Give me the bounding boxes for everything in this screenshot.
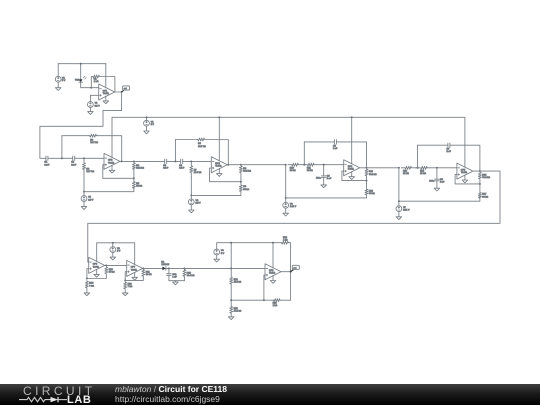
svg-text:2.21 V: 2.21 V <box>403 210 410 212</box>
wire <box>103 165 134 179</box>
node junction <box>83 191 85 193</box>
voltage source V9 <box>214 249 225 255</box>
svg-text:1 kΩ: 1 kΩ <box>283 240 288 242</box>
wire <box>240 174 242 185</box>
wire <box>302 164 306 166</box>
node junction <box>290 271 292 273</box>
wire <box>105 264 127 266</box>
wire <box>316 164 344 166</box>
node junction <box>230 267 232 269</box>
svg-text:TL081: TL081 <box>131 269 138 271</box>
wire <box>303 142 305 165</box>
node junction <box>285 164 287 166</box>
svg-text:98 kΩ: 98 kΩ <box>482 196 488 198</box>
wire <box>227 164 285 166</box>
wire <box>83 174 85 192</box>
node junction <box>83 157 85 159</box>
wire <box>280 272 291 301</box>
svg-text:36.5 kΩ: 36.5 kΩ <box>243 171 251 173</box>
svg-text:TL081: TL081 <box>215 166 222 168</box>
photodiode PD1 <box>75 76 86 82</box>
ground <box>462 180 468 183</box>
ground <box>228 317 234 320</box>
node junction <box>146 116 148 118</box>
svg-text:2.5 V: 2.5 V <box>95 105 101 107</box>
node junction <box>121 160 123 162</box>
node junction <box>190 160 192 162</box>
wire <box>479 180 481 192</box>
wire <box>351 172 353 177</box>
wire <box>289 243 291 272</box>
wire <box>398 212 400 217</box>
svg-text:5 V: 5 V <box>117 250 121 252</box>
node junction <box>168 267 170 269</box>
label 100n <box>429 181 435 183</box>
svg-text:5 V: 5 V <box>221 253 225 255</box>
wire <box>218 169 220 174</box>
svg-text:TL081: TL081 <box>103 93 110 95</box>
resistor R20 <box>124 282 133 289</box>
resistor R2 <box>89 134 98 144</box>
wire <box>87 269 89 279</box>
resistor R13 <box>365 189 375 195</box>
svg-text:16.7 kΩ: 16.7 kΩ <box>198 146 206 148</box>
wire <box>112 253 114 258</box>
wire <box>174 140 176 162</box>
voltage source V3 <box>81 196 94 202</box>
svg-text:20 kΩ: 20 kΩ <box>403 173 409 175</box>
capacitor C1 <box>44 156 50 166</box>
node junction <box>190 194 192 196</box>
node junction <box>351 116 353 118</box>
node junction <box>272 242 274 244</box>
node junction <box>240 181 242 183</box>
wire <box>272 243 274 268</box>
voltage source V7 <box>396 206 410 212</box>
node junction <box>133 177 135 179</box>
node junction <box>90 87 92 89</box>
resistor R10 <box>288 163 302 172</box>
resistor R4 <box>132 161 144 171</box>
wire <box>105 96 107 101</box>
ground <box>349 177 355 180</box>
wire <box>133 171 135 182</box>
node junction <box>366 180 368 182</box>
op-amp OP5 <box>457 163 473 179</box>
wire <box>285 165 287 198</box>
wire <box>115 91 122 93</box>
svg-text:2 uF: 2 uF <box>333 148 338 150</box>
ground <box>103 101 109 104</box>
resistor R9 <box>239 185 249 192</box>
voltage source V5 <box>188 199 201 205</box>
op-amp OP6 <box>89 257 105 273</box>
resistor R26 <box>273 299 280 308</box>
wire <box>57 82 59 88</box>
svg-text:2 uF: 2 uF <box>447 151 452 153</box>
wire <box>83 192 85 196</box>
wire <box>366 177 368 189</box>
resistor R23 <box>282 237 289 244</box>
svg-text:0.2 F: 0.2 F <box>44 164 50 166</box>
node junction <box>133 160 135 162</box>
node junction <box>285 197 287 199</box>
node junction <box>398 200 400 202</box>
wire <box>190 195 192 199</box>
svg-text:1 kΩ: 1 kΩ <box>94 81 99 83</box>
wire <box>417 145 419 168</box>
wire <box>111 165 113 170</box>
wire <box>218 117 220 160</box>
node junction <box>80 63 82 65</box>
wire <box>398 168 400 201</box>
ground <box>217 174 223 177</box>
wire <box>415 167 419 169</box>
svg-text:0.2 F: 0.2 F <box>163 167 169 169</box>
capacitor C6 <box>321 176 331 181</box>
wire <box>167 160 181 162</box>
node junction <box>436 167 438 169</box>
wire <box>62 135 89 137</box>
resistor R6 <box>197 138 206 148</box>
wire <box>183 160 212 162</box>
wire <box>125 277 143 280</box>
ground <box>81 207 87 210</box>
wire <box>436 181 438 188</box>
svg-text:100n: 100n <box>429 181 435 183</box>
wire <box>80 64 82 80</box>
wire <box>231 267 265 269</box>
node junction <box>366 167 368 169</box>
resistor R17 <box>478 193 488 199</box>
node junction <box>218 116 220 118</box>
svg-text:1N4148: 1N4148 <box>161 264 169 266</box>
ground <box>109 170 115 173</box>
wire <box>169 275 185 280</box>
diode D1 <box>161 261 169 270</box>
node junction <box>112 242 114 244</box>
svg-text:5 V: 5 V <box>62 80 66 82</box>
svg-text:20 kΩ: 20 kΩ <box>420 173 426 175</box>
voltage source V2 <box>88 102 101 108</box>
svg-text:out: out <box>293 266 296 269</box>
voltage source V1 <box>55 76 66 82</box>
output flag OUT1 <box>122 86 130 92</box>
node junction <box>227 164 229 166</box>
node junction <box>105 264 107 266</box>
ground <box>321 185 327 188</box>
wire <box>84 188 134 191</box>
node junction <box>479 183 481 185</box>
wire <box>183 278 185 281</box>
wire <box>86 289 88 293</box>
wire <box>464 175 466 180</box>
wire <box>285 198 287 203</box>
wire <box>88 171 500 262</box>
svg-text:TL081: TL081 <box>461 172 468 174</box>
ground <box>396 217 402 220</box>
node junction <box>183 267 185 269</box>
svg-text:TL081: TL081 <box>108 162 115 164</box>
resistor R1 <box>91 75 101 83</box>
svg-text:TL081: TL081 <box>269 273 276 275</box>
capacitor C3 <box>163 159 169 169</box>
wire <box>146 117 148 120</box>
wire <box>96 269 98 274</box>
wire <box>101 77 115 93</box>
wire <box>90 77 92 88</box>
wire <box>304 141 334 143</box>
ground <box>55 88 61 91</box>
wire <box>399 198 480 201</box>
ground <box>144 131 150 134</box>
resistor R12 <box>365 168 377 177</box>
wire <box>90 95 98 101</box>
wire <box>429 167 457 169</box>
node junction <box>174 160 176 162</box>
resistor R11 <box>306 163 317 172</box>
svg-text:47.5 kΩ: 47.5 kΩ <box>234 281 242 283</box>
ground <box>173 282 179 285</box>
svg-text:30 kΩ: 30 kΩ <box>146 274 152 276</box>
wire <box>87 275 106 278</box>
node junction <box>398 167 400 169</box>
wire <box>210 168 241 182</box>
wire <box>191 192 241 196</box>
svg-text:2.5 V: 2.5 V <box>88 199 94 201</box>
wire <box>190 177 192 195</box>
ground <box>132 277 138 280</box>
resistor R24 <box>230 277 242 284</box>
wire <box>450 145 480 171</box>
svg-text:2 uF: 2 uF <box>440 182 445 184</box>
capacitor C7 <box>447 143 452 153</box>
wire <box>61 136 63 159</box>
wire <box>342 171 367 181</box>
ground <box>110 257 116 260</box>
node junction <box>230 299 232 301</box>
wire <box>436 168 438 179</box>
wire <box>146 126 148 131</box>
ground <box>270 281 276 284</box>
svg-text:16.7 kΩ: 16.7 kΩ <box>90 142 98 144</box>
resistor R21 <box>142 268 152 277</box>
ground <box>94 274 100 277</box>
node junction <box>240 164 242 166</box>
wire <box>418 144 448 146</box>
wire <box>272 276 274 281</box>
svg-text:out: out <box>124 87 127 90</box>
ground <box>84 293 90 296</box>
wire <box>190 205 192 210</box>
svg-text:30 kΩ: 30 kΩ <box>109 271 115 273</box>
svg-text:7 kΩ: 7 kΩ <box>128 286 133 288</box>
svg-text:TL081: TL081 <box>93 266 100 268</box>
node junction <box>303 164 305 166</box>
op-amp OP7 <box>127 260 143 276</box>
voltage source V6 <box>283 202 297 208</box>
svg-text:1 kΩ: 1 kΩ <box>273 305 278 307</box>
wire <box>216 255 218 259</box>
node junction <box>417 167 419 169</box>
wire <box>323 165 325 176</box>
resistor R5 <box>132 182 142 189</box>
svg-text:10.4 kΩ: 10.4 kΩ <box>187 275 195 277</box>
voltage source V4 <box>144 120 155 126</box>
resistor R15 <box>419 166 430 175</box>
svg-text:98 kΩ: 98 kΩ <box>136 186 142 188</box>
svg-text:2.5 V: 2.5 V <box>196 203 202 205</box>
wire <box>360 167 399 169</box>
wire <box>75 157 104 159</box>
svg-text:5 V: 5 V <box>151 124 155 126</box>
op-amp OP2 <box>104 153 120 169</box>
wire <box>168 268 170 273</box>
node junction <box>121 91 123 93</box>
ground <box>434 188 440 191</box>
wire <box>323 178 325 185</box>
svg-text:1 uF: 1 uF <box>172 277 177 279</box>
capacitor C5 <box>333 140 338 150</box>
wire <box>97 136 122 162</box>
node junction <box>61 157 63 159</box>
node junction <box>230 242 232 244</box>
svg-text:7 kΩ: 7 kΩ <box>89 285 94 287</box>
svg-text:47.5 kΩ: 47.5 kΩ <box>234 311 242 313</box>
resistor R8 <box>239 165 251 174</box>
resistor R19 <box>105 265 115 275</box>
ground <box>283 213 289 216</box>
capacitor C10 <box>167 274 178 279</box>
svg-text:20 kΩ: 20 kΩ <box>307 170 313 172</box>
wire <box>264 275 265 300</box>
wire <box>83 201 85 206</box>
capacitor C2 <box>71 156 77 166</box>
wire <box>398 201 400 206</box>
svg-text:16.7 kΩ: 16.7 kΩ <box>194 172 202 174</box>
op-amp OP3 <box>211 157 227 173</box>
rail wire <box>112 117 465 167</box>
wire <box>81 82 92 88</box>
ground <box>214 259 220 262</box>
wire <box>285 208 287 213</box>
wire <box>455 174 480 184</box>
op-amp OP1 <box>99 84 115 100</box>
resistor R14 <box>401 166 415 175</box>
node junction <box>479 170 481 172</box>
wire <box>205 140 228 165</box>
svg-text:70.3 kΩ: 70.3 kΩ <box>482 177 490 179</box>
rail wire <box>217 243 282 249</box>
wire <box>105 64 107 88</box>
label 100n <box>316 177 322 179</box>
ground <box>122 293 128 296</box>
voltage source V8 <box>110 247 121 253</box>
wire <box>89 107 91 111</box>
rail wire <box>97 243 135 265</box>
svg-text:98 kΩ: 98 kΩ <box>369 193 375 195</box>
svg-text:0.2 F: 0.2 F <box>71 164 77 166</box>
svg-text:36.5 kΩ: 36.5 kΩ <box>136 168 144 170</box>
capacitor C8 <box>435 179 445 184</box>
wire <box>120 160 165 162</box>
wire <box>40 92 122 158</box>
wire <box>281 271 291 273</box>
node junction <box>323 164 325 166</box>
wire <box>58 63 106 65</box>
wire <box>174 281 176 282</box>
node junction <box>124 279 126 281</box>
resistor R3 <box>83 158 95 174</box>
svg-text:20 kΩ: 20 kΩ <box>290 170 296 172</box>
svg-text:98 kΩ: 98 kΩ <box>243 189 249 191</box>
svg-text:2 uF: 2 uF <box>327 178 332 180</box>
svg-text:2.21 V: 2.21 V <box>290 206 297 208</box>
wire <box>112 243 114 247</box>
svg-text:0.2 F: 0.2 F <box>179 167 185 169</box>
svg-text:100n: 100n <box>316 177 322 179</box>
ground <box>88 112 94 115</box>
node junction <box>263 299 265 301</box>
wire <box>124 289 126 293</box>
op-amp OP4 <box>344 160 360 176</box>
wire <box>134 272 136 277</box>
wire <box>48 157 73 159</box>
wire <box>175 139 197 141</box>
capacitor C4 <box>179 159 185 169</box>
resistor R7 <box>190 161 202 177</box>
wire <box>40 157 46 159</box>
wire <box>230 313 232 317</box>
svg-text:16.7 kΩ: 16.7 kΩ <box>86 171 94 173</box>
wire <box>91 87 98 89</box>
node junction <box>86 278 88 280</box>
svg-text:70.3 kΩ: 70.3 kΩ <box>369 174 377 176</box>
op-amp OP8 <box>265 264 281 280</box>
wire <box>125 272 127 281</box>
svg-text:TL081: TL081 <box>348 169 355 171</box>
wire <box>57 64 59 77</box>
wire <box>351 117 353 164</box>
wire <box>166 267 231 269</box>
wire <box>336 142 366 168</box>
ground <box>189 210 195 213</box>
resistor R22 <box>183 268 195 277</box>
wire <box>286 195 367 198</box>
resistor R16 <box>478 171 490 180</box>
output flag OUT2 <box>291 265 300 271</box>
node junction <box>142 267 144 269</box>
wire <box>231 299 273 301</box>
wire <box>143 267 163 269</box>
wire <box>230 243 232 278</box>
resistor R25 <box>230 306 242 313</box>
wire <box>230 284 232 306</box>
resistor R18 <box>85 281 94 289</box>
CircuitLab logo <box>23 384 95 398</box>
